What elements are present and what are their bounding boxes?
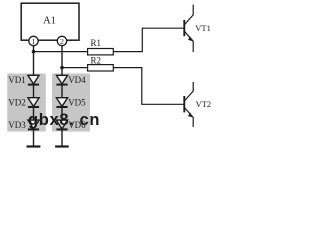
diode VD2 — [8, 98, 39, 108]
svg-text:VD5: VD5 — [68, 98, 86, 108]
diode VD1 — [8, 75, 39, 85]
svg-text:gbx8.: gbx8. — [28, 111, 75, 129]
ground bar left — [27, 145, 41, 147]
ground bar right — [55, 145, 69, 147]
svg-text:A1: A1 — [43, 16, 56, 27]
svg-text:1: 1 — [32, 37, 36, 46]
svg-text:2: 2 — [60, 37, 64, 46]
wire: node to R1 — [34, 51, 89, 53]
svg-text:cn: cn — [80, 111, 101, 129]
svg-text:VD2: VD2 — [8, 98, 26, 108]
wire: R1 to VT1 base — [113, 28, 184, 51]
junction node at terminal-1 branch — [32, 50, 36, 54]
shaded block right (diode group VD4-VD6) — [52, 74, 90, 132]
wire: terminal 1 vertical down to ground — [33, 46, 35, 147]
transistor VT2 — [184, 82, 211, 127]
svg-text:VT1: VT1 — [195, 23, 211, 33]
svg-text:VD4: VD4 — [68, 75, 86, 85]
wire: terminal 2 vertical down to ground — [61, 46, 63, 147]
junction node at terminal-2 branch — [60, 66, 64, 70]
box A1 — [21, 3, 79, 40]
transistor VT1 — [184, 5, 211, 52]
wire: R2 to VT2 base — [113, 68, 184, 105]
diode VD5 — [56, 98, 86, 108]
svg-text:R1: R1 — [91, 38, 102, 48]
resistor R2 — [88, 56, 114, 71]
wire: node to R2 — [62, 67, 88, 69]
svg-text:R2: R2 — [91, 56, 102, 66]
shaded block left (diode group VD1-VD3) — [7, 74, 46, 132]
diode VD3 — [8, 120, 39, 130]
svg-text:VD1: VD1 — [8, 75, 26, 85]
svg-text:VD3: VD3 — [8, 120, 26, 130]
diode VD6 — [56, 120, 86, 130]
terminal 1 (circled) — [29, 36, 38, 46]
svg-text:VT2: VT2 — [196, 99, 212, 109]
resistor R1 — [88, 38, 114, 55]
terminal 2 (circled) — [57, 36, 66, 46]
diode VD4 — [56, 75, 86, 85]
